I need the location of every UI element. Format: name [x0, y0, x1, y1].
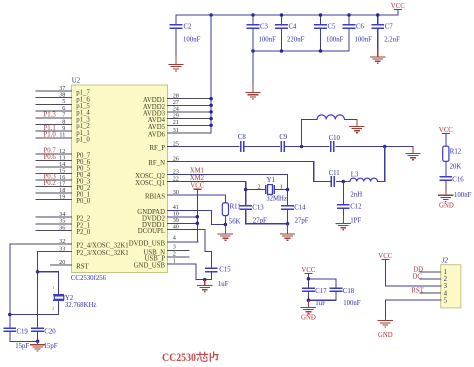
pin 27 AVDD2: [143, 99, 211, 111]
svg-text:C6: C6: [356, 24, 365, 31]
svg-text:5: 5: [444, 297, 448, 304]
IC U2 reference designator: [72, 77, 81, 84]
pin 10 DVDD2: [142, 211, 197, 223]
svg-text:32MHz: 32MHz: [266, 196, 287, 203]
pin 29 AVD4: [148, 112, 211, 124]
capacitor C17 1uF: [302, 288, 327, 307]
svg-text:GND_USB: GND_USB: [134, 263, 166, 270]
ground under C12: [336, 215, 351, 229]
svg-text:RST: RST: [76, 264, 89, 271]
net label P1.3: [44, 111, 57, 118]
svg-text:4: 4: [173, 235, 176, 242]
svg-text:C19: C19: [17, 329, 29, 336]
svg-text:DD: DD: [413, 266, 423, 273]
svg-text:CC2530: CC2530: [162, 352, 196, 364]
svg-text:VCC: VCC: [391, 3, 405, 10]
svg-text:VCC: VCC: [301, 267, 315, 274]
inductor L3 2nH: [350, 171, 378, 198]
svg-text:C2: C2: [184, 24, 193, 31]
pin 33 P2_3/XOSC_32K1: [38, 245, 129, 257]
svg-text:100nF: 100nF: [355, 37, 373, 44]
pin 11 p1_0: [36, 132, 90, 144]
svg-text:RF_N: RF_N: [148, 160, 165, 167]
resistor R11 56K: [222, 203, 240, 226]
pin 34 P2_2: [36, 211, 91, 223]
ground under R11: [218, 225, 233, 241]
svg-text:XM2: XM2: [190, 175, 205, 182]
svg-text:C20: C20: [44, 329, 56, 336]
svg-text:P2_3/XOSC_32K1: P2_3/XOSC_32K1: [76, 250, 129, 257]
svg-text:GND: GND: [301, 314, 316, 321]
capacitor C3: [247, 13, 276, 51]
svg-text:11: 11: [59, 132, 65, 139]
svg-text:C7: C7: [385, 24, 394, 31]
svg-text:C18: C18: [343, 288, 355, 295]
ground under J2: [378, 317, 393, 339]
pin 23 XOSC_Q2: [135, 168, 179, 180]
title CC2530 chip (Chinese): [162, 352, 218, 364]
svg-text:P0.6: P0.6: [44, 154, 57, 161]
pin 6 p1_4: [36, 105, 90, 117]
pin 25 RF_P: [150, 140, 179, 152]
pin 8 p1_2: [36, 118, 90, 130]
wire Y2 top tap: [38, 272, 59, 295]
IC U2 part value CC2530f256: [71, 275, 107, 282]
svg-text:XM1: XM1: [190, 168, 204, 175]
net label RST: [411, 288, 424, 295]
pin 17 P0_2: [36, 180, 91, 192]
svg-text:C10: C10: [329, 135, 341, 142]
wire GND_USB net: [168, 264, 207, 281]
svg-text:15pF: 15pF: [15, 343, 29, 350]
ground under C14: [280, 224, 295, 241]
ground under C2: [168, 56, 183, 71]
svg-text:100nF: 100nF: [454, 192, 472, 199]
wire DCOUPL net: [168, 230, 212, 269]
net label P1.1: [44, 125, 56, 132]
ground under C15: [197, 280, 212, 292]
svg-text:p1_0: p1_0: [76, 137, 90, 144]
svg-text:36: 36: [59, 224, 65, 231]
svg-text:AVD5: AVD5: [148, 124, 166, 131]
svg-text:Y1: Y1: [267, 177, 275, 184]
IC U2 CC2530 body: [72, 85, 168, 273]
pin 37 p1_7: [36, 85, 90, 97]
svg-text:32.768KHz: 32.768KHz: [65, 302, 97, 309]
pin 41 GNDPAD: [137, 204, 179, 216]
wire VCC to C17/C18: [307, 274, 336, 288]
svg-text:P1.3: P1.3: [44, 111, 57, 118]
svg-text:1: 1: [280, 184, 283, 191]
crystal Y2 32.768KHz: [52, 285, 96, 311]
power VCC (C17/C18): [301, 267, 315, 274]
pin 28 AVDD1: [143, 92, 211, 104]
svg-text:DC: DC: [413, 273, 423, 280]
pin 7 p1_3: [36, 112, 90, 124]
pin 22 XOSC_Q1: [135, 175, 179, 187]
wire RBIAS net: [168, 195, 226, 203]
svg-text:VCC: VCC: [190, 183, 204, 190]
svg-text:220nF: 220nF: [287, 37, 305, 44]
svg-text:1uF: 1uF: [315, 300, 326, 307]
wire VCC top rail: [176, 14, 398, 16]
svg-text:C4: C4: [289, 24, 298, 31]
power VCC (R12 bias): [439, 127, 453, 134]
svg-text:RST: RST: [411, 288, 424, 295]
svg-text:P0_0: P0_0: [76, 198, 91, 205]
pin 12 P0_7: [36, 148, 91, 160]
svg-text:C9: C9: [279, 134, 288, 141]
wire AVDD vertical feed: [209, 15, 213, 133]
capacitor C18 100nF: [308, 288, 360, 307]
net label P0.7: [44, 148, 57, 155]
capacitor C13 27pF: [239, 204, 267, 224]
capacitor C4: [275, 13, 304, 51]
svg-text:C11: C11: [329, 170, 340, 177]
wire Y1 taps: [246, 189, 288, 191]
pin 9 p1_1: [36, 125, 90, 137]
svg-text:31: 31: [173, 127, 179, 134]
svg-text:32: 32: [59, 238, 65, 245]
pin 32 P2_4/XOSC_32K1: [10, 238, 129, 250]
svg-text:2: 2: [444, 276, 448, 283]
svg-text:DCOUPL: DCOUPL: [138, 228, 165, 235]
pin 26 RF_N: [148, 155, 179, 167]
svg-text:C8: C8: [238, 134, 247, 141]
pin 38 p1_6: [36, 92, 90, 104]
svg-text:RF_P: RF_P: [150, 145, 166, 152]
pin 40 DCOUPL: [138, 223, 179, 235]
wire P2_4/XOSC_32K1 net: [8, 244, 12, 328]
capacitor C15 1uF: [205, 266, 232, 288]
wire RF_N net: [168, 147, 385, 184]
svg-text:4: 4: [444, 290, 448, 297]
svg-text:VCC: VCC: [378, 253, 392, 260]
svg-text:C13: C13: [252, 204, 264, 211]
svg-text:100nF: 100nF: [259, 37, 277, 44]
svg-text:2: 2: [173, 251, 176, 258]
wire J2 pin3 to VCC: [385, 260, 440, 286]
svg-text:1PF: 1PF: [350, 218, 361, 225]
pin 15 P0_4: [36, 167, 91, 179]
svg-text:GND: GND: [378, 332, 393, 339]
svg-text:XOSC_Q1: XOSC_Q1: [135, 180, 165, 187]
capacitor C6: [343, 13, 372, 51]
pin 24 AVDD3: [143, 106, 211, 118]
pin 14 P0_5: [36, 161, 91, 173]
svg-text:C3: C3: [260, 24, 269, 31]
junction on rail at AVDD feed: [209, 13, 213, 17]
svg-text:RBIAS: RBIAS: [145, 194, 165, 201]
connector J2 pin 2: [420, 276, 447, 283]
svg-text:C5: C5: [328, 24, 337, 31]
pin 31 AVD6: [148, 127, 211, 139]
net label XM1: [190, 168, 204, 175]
capacitor C10: [329, 135, 341, 152]
pin 39 DVDD1: [142, 217, 197, 229]
net label P0.2: [44, 180, 57, 187]
svg-text:J2: J2: [442, 257, 449, 264]
svg-text:USB_P: USB_P: [145, 256, 166, 263]
svg-text:P0.2: P0.2: [44, 180, 57, 187]
power VCC (J2): [378, 253, 392, 260]
inductor L (antenna match): [317, 115, 344, 120]
svg-text:C17: C17: [315, 288, 327, 295]
capacitor C16 100nF: [439, 177, 471, 199]
pin 19 P0_0: [36, 193, 91, 205]
ground under C7: [370, 49, 385, 63]
pin 35 P2_1: [36, 218, 90, 230]
capacitor C8: [238, 134, 247, 152]
pin 21 AVD5: [148, 119, 211, 131]
wire crystal caps bus: [246, 222, 290, 226]
net label P0.6: [44, 154, 57, 161]
svg-text:2.2uF: 2.2uF: [384, 37, 400, 44]
svg-text:CC2530f256: CC2530f256: [71, 275, 107, 282]
svg-text:1uF: 1uF: [218, 281, 229, 288]
ground right of C10: [405, 147, 420, 160]
pin 36 P2_0: [36, 224, 91, 236]
pin 5 p1_5: [36, 98, 90, 110]
svg-text:R11: R11: [230, 204, 241, 211]
capacitor C2: [170, 15, 201, 56]
connector J2 pin 4: [420, 290, 447, 297]
capacitor C9: [279, 134, 288, 152]
svg-text:AVD6: AVD6: [148, 132, 166, 139]
capacitor C11: [329, 170, 340, 187]
svg-text:21: 21: [173, 119, 179, 126]
pin 2 USB_P: [145, 251, 189, 263]
svg-text:3: 3: [173, 244, 176, 251]
wire decoupling bottom bus: [251, 49, 349, 53]
svg-text:U2: U2: [72, 77, 81, 84]
net label XM2: [190, 175, 205, 182]
svg-text:2: 2: [258, 184, 261, 191]
wire Y2 bottom tap: [10, 300, 59, 314]
svg-text:C16: C16: [452, 177, 464, 184]
net label P0.3: [44, 174, 57, 181]
connector J2 pin 3: [444, 283, 448, 290]
svg-text:VCC: VCC: [439, 127, 453, 134]
svg-text:C12: C12: [350, 204, 362, 211]
svg-text:3: 3: [444, 283, 448, 290]
svg-text:27pF: 27pF: [295, 217, 309, 224]
svg-text:100nF: 100nF: [343, 300, 361, 307]
wire R12 to C16: [445, 161, 447, 177]
net label DD: [413, 266, 423, 273]
connector J2 pin 1: [420, 269, 447, 276]
connector J2 pin 5: [444, 297, 448, 304]
pin 13 P0_6: [36, 154, 91, 166]
svg-text:L3: L3: [351, 171, 359, 178]
svg-text:GND: GND: [439, 203, 454, 210]
ground under C16: [438, 191, 454, 210]
pin 30 RBIAS: [145, 189, 179, 201]
svg-text:100nF: 100nF: [183, 37, 201, 44]
svg-text:DVDD_USB: DVDD_USB: [129, 241, 166, 248]
power VCC (DVDD feed): [190, 183, 204, 190]
connector J2 body: [441, 257, 461, 308]
pin 18 P0_1: [36, 187, 90, 199]
ground after antenna inductor: [349, 119, 364, 132]
pin 16 P0_3: [36, 174, 91, 186]
wire R11 bottom / GNDPAD net: [168, 210, 228, 226]
pin 20 RST: [50, 259, 89, 271]
capacitor C5: [314, 13, 343, 51]
svg-text:20: 20: [59, 259, 65, 266]
wire antenna branch: [302, 119, 357, 146]
svg-text:C14: C14: [294, 204, 306, 211]
svg-text:XOSC_Q2: XOSC_Q2: [135, 173, 165, 180]
svg-text:56K: 56K: [229, 218, 241, 225]
ground under C19/C20: [30, 341, 45, 351]
svg-text:P1.0: P1.0: [44, 132, 57, 139]
capacitor C7: [371, 13, 400, 49]
pin 3 USB_N: [143, 244, 188, 257]
svg-text:R12: R12: [450, 149, 462, 156]
wire J2 pin5 to GND: [385, 300, 440, 317]
svg-text:100nF: 100nF: [326, 37, 344, 44]
wire VCC to DVDD pins: [168, 189, 200, 242]
ground under decoupling bus: [245, 51, 260, 99]
svg-text:20K: 20K: [450, 164, 462, 171]
capacitor C19 15pF: [3, 328, 37, 350]
pin 4 DVDD_USB: [129, 235, 198, 248]
svg-text:P2_0: P2_0: [76, 229, 91, 236]
net label DC: [413, 273, 423, 280]
svg-text:C15: C15: [219, 266, 231, 273]
svg-text:2nH: 2nH: [350, 191, 362, 198]
svg-text:P2_4/XOSC_32K1: P2_4/XOSC_32K1: [76, 243, 129, 250]
svg-text:15pF: 15pF: [44, 343, 58, 350]
svg-text:19: 19: [59, 193, 65, 200]
svg-text:33: 33: [59, 245, 65, 252]
power VCC (top right): [391, 3, 405, 15]
capacitor C20 15pF: [31, 328, 58, 350]
capacitor C12 1PF: [337, 182, 362, 225]
crystal Y1 32MHz: [258, 177, 287, 203]
capacitor C14 27pF: [281, 204, 309, 224]
wire RF_P net: [168, 145, 414, 149]
ground under C17: [301, 298, 316, 321]
wire XM1 net: [168, 175, 290, 207]
pin 1 GND_USB: [134, 258, 176, 270]
net label P1.0: [44, 132, 57, 139]
wire XM2 net: [168, 182, 248, 207]
wire VCC to R12: [445, 134, 447, 147]
svg-text:1: 1: [444, 269, 447, 276]
resistor R12 20K: [443, 146, 462, 171]
wire P2_3/XOSC_32K1 net: [36, 252, 40, 329]
